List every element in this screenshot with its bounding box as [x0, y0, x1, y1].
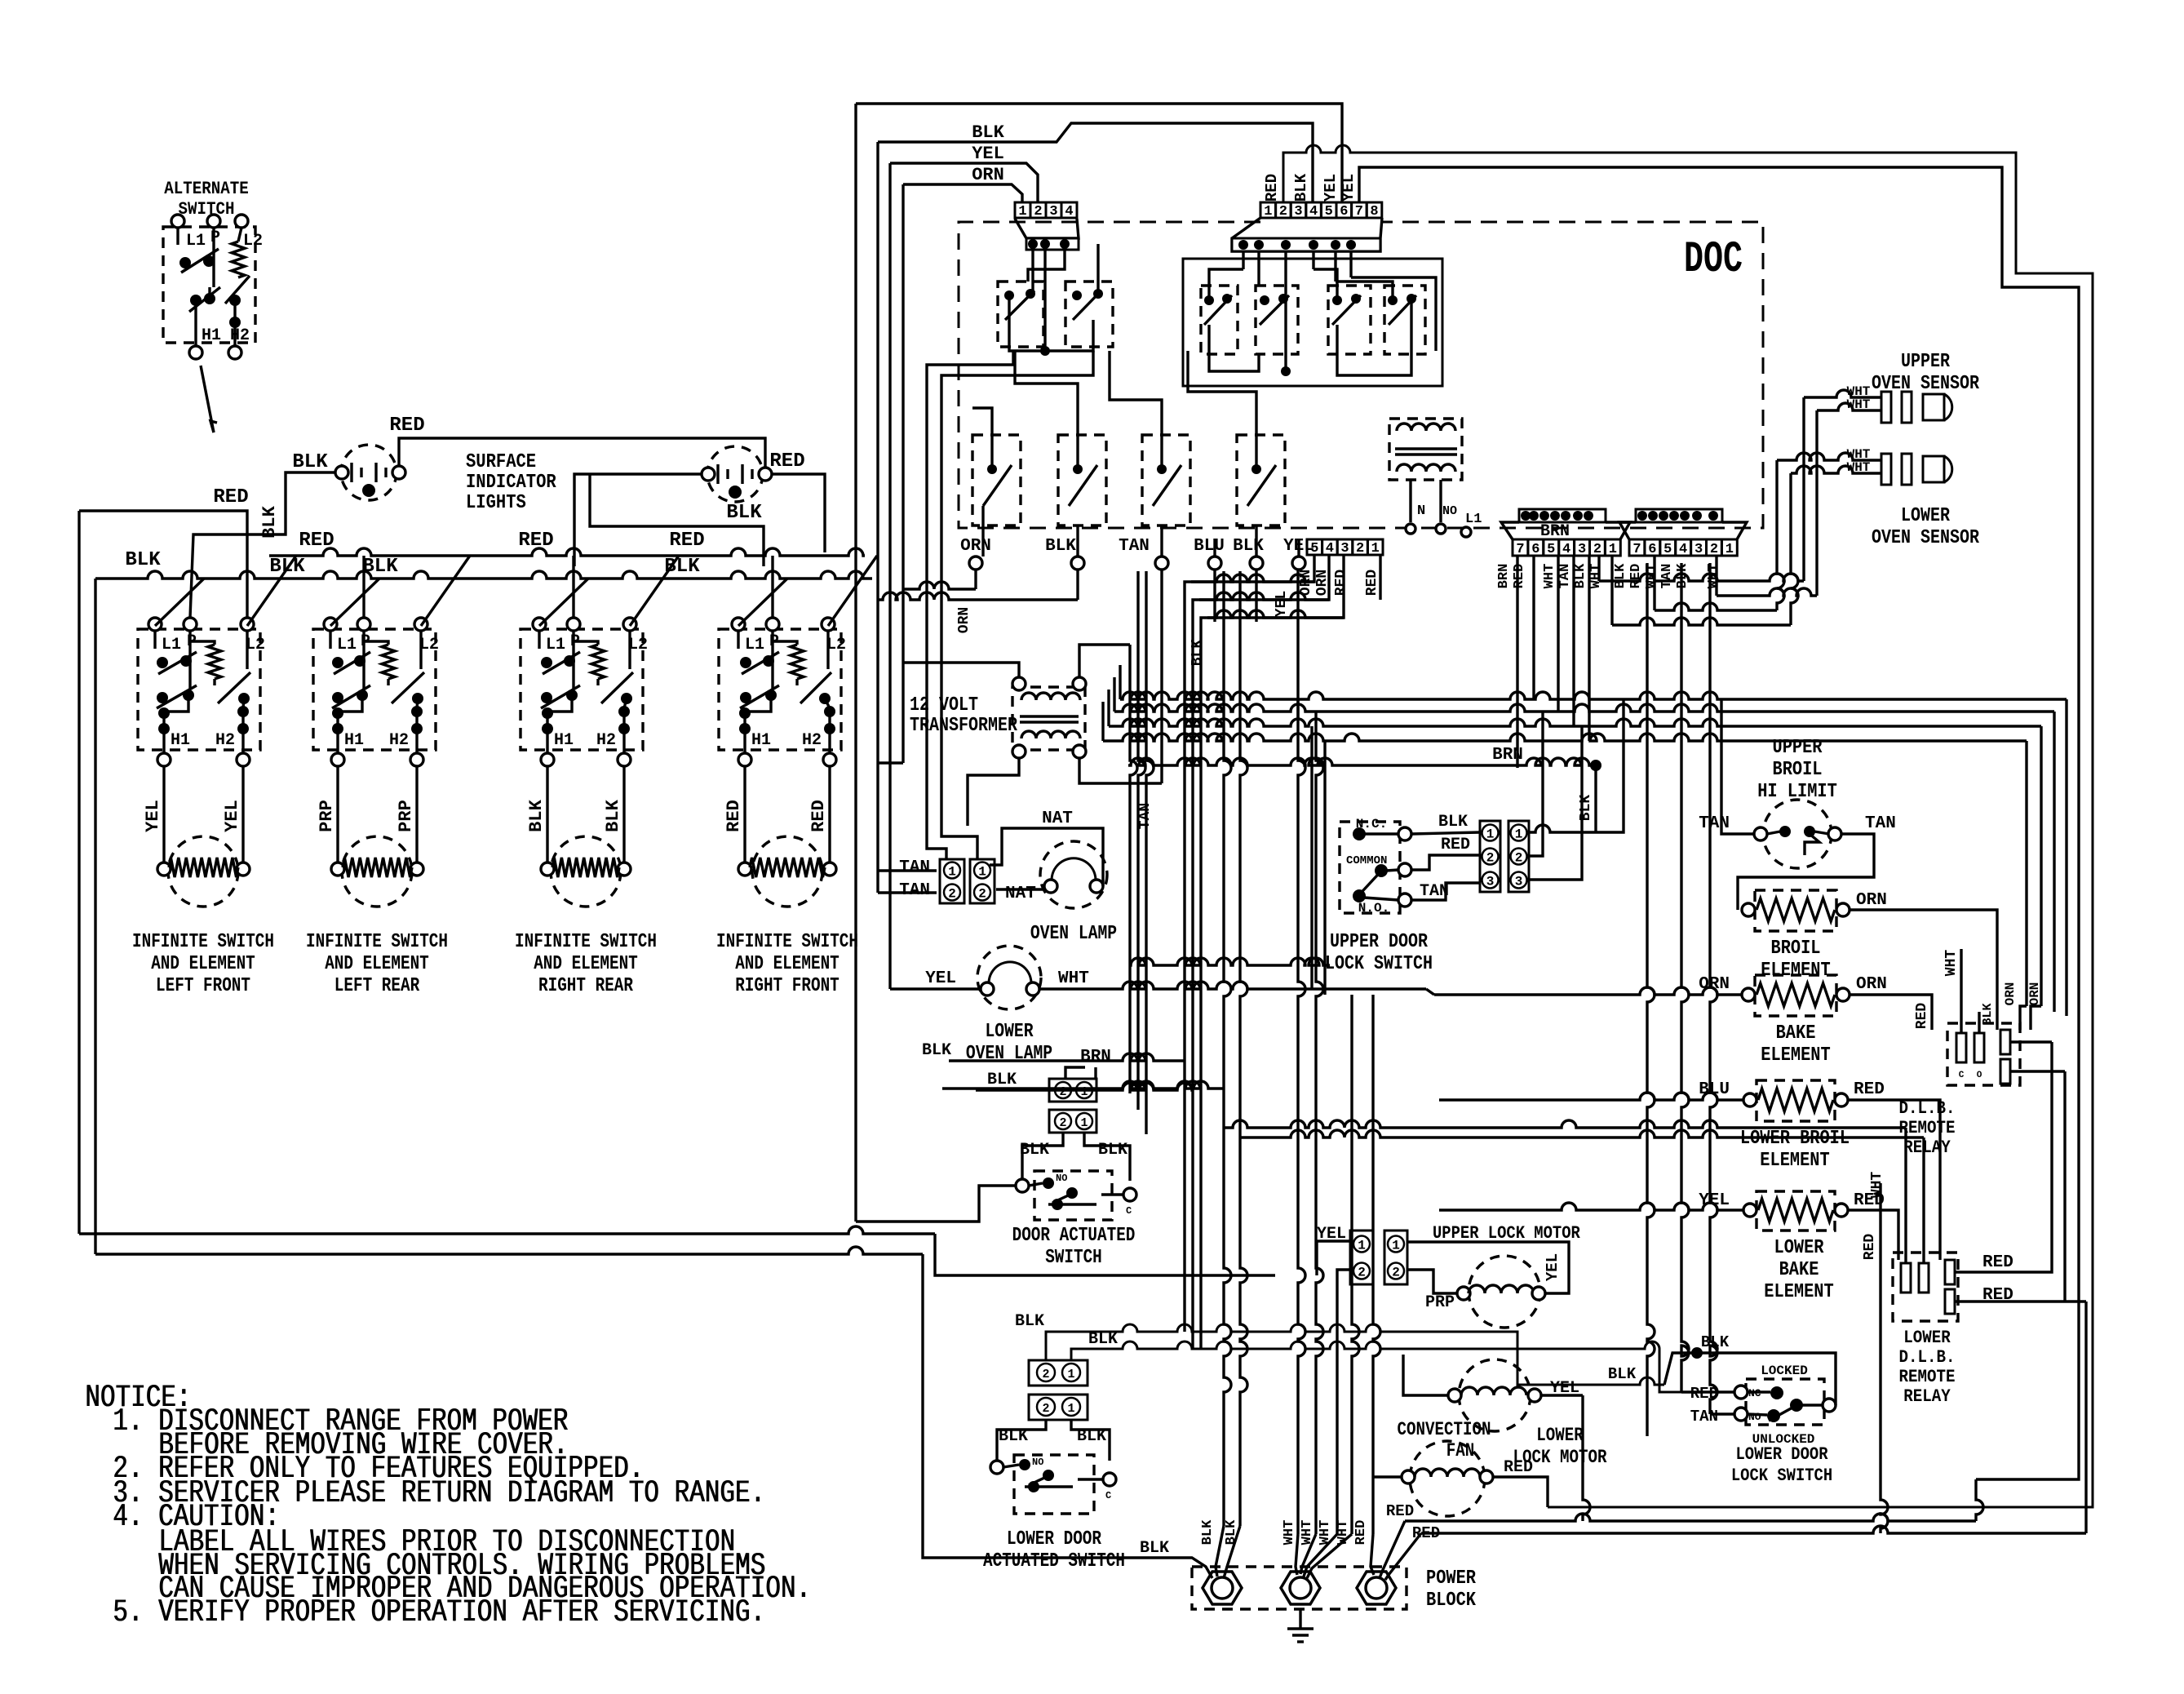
svg-text:ORN: ORN: [956, 607, 972, 633]
connector P3 5-1: [1307, 539, 1383, 557]
lower door lock switch caption: [1731, 1444, 1832, 1486]
connector P5 pin wires: [1647, 563, 1717, 1436]
svg-text:RIGHT REAR: RIGHT REAR: [538, 975, 633, 997]
svg-text:BLK: BLK: [1981, 1003, 1995, 1025]
element wires RED: [724, 766, 830, 865]
svg-text:3: 3: [1515, 875, 1523, 889]
top border wire outer: [856, 104, 1342, 1222]
wires from bus to switch left rear: [330, 556, 470, 626]
svg-text:BLK: BLK: [1578, 795, 1594, 822]
svg-text:TRANSFORMER: TRANSFORMER: [910, 715, 1017, 737]
svg-text:RED: RED: [1364, 570, 1380, 596]
svg-text:LOCKED: LOCKED: [1761, 1364, 1808, 1378]
svg-text:YEL: YEL: [1322, 174, 1340, 202]
svg-text:NO: NO: [1442, 504, 1457, 518]
oven lamp caption: [1030, 923, 1117, 945]
svg-text:RED: RED: [1263, 174, 1281, 202]
svg-text:1: 1: [1067, 1402, 1074, 1416]
svg-text:D.L.B.: D.L.B.: [1899, 1347, 1956, 1368]
upper door lock switch: [1340, 817, 1411, 916]
power block wire fan: [1216, 1526, 1374, 1578]
notice text: [85, 1380, 812, 1630]
svg-text:YEL: YEL: [925, 969, 956, 988]
connector P3 pin wires to bus: [1185, 556, 1380, 1349]
door actuated switch: [1016, 1133, 1136, 1220]
bake element wires: [1434, 987, 1932, 1030]
svg-text:2: 2: [1042, 1368, 1049, 1381]
svg-text:NAT: NAT: [1005, 885, 1036, 903]
upper door lock block output wires: [1529, 699, 1624, 880]
sensor wire runs: [1599, 397, 1817, 625]
wire RED pin2 to right border: [1283, 145, 2093, 1507]
wire BLK left of left light: [190, 451, 335, 618]
svg-text:NO: NO: [1032, 1457, 1043, 1468]
element right rear: [541, 836, 631, 907]
svg-text:TAN: TAN: [899, 881, 930, 900]
svg-text:7: 7: [1355, 204, 1363, 220]
svg-text:PRP: PRP: [396, 800, 416, 832]
connector P4 7-1 left: [1501, 509, 1630, 557]
lower bake element: [1699, 1191, 1885, 1231]
DOC output terminal drop wires: [878, 570, 1298, 829]
wire RED top between indicator lights: [389, 415, 765, 468]
svg-text:RED: RED: [1386, 1502, 1414, 1520]
wires from bus to switch right front: [738, 556, 877, 626]
upper oven sensor: [1847, 384, 1952, 423]
upper door lock connector blocks: [1480, 821, 1529, 892]
bake element: [1699, 975, 1887, 1016]
power block wire labels: [1200, 1519, 1369, 1545]
upper broil hi limit wires: [1721, 699, 1874, 910]
wire RED upper-left to switch 1: [79, 486, 249, 618]
svg-text:LOWER: LOWER: [1903, 1328, 1951, 1348]
svg-text:REMOTE: REMOTE: [1899, 1367, 1956, 1387]
svg-text:BLK: BLK: [125, 549, 161, 571]
svg-text:BLK: BLK: [1613, 563, 1628, 588]
svg-text:TAN: TAN: [1119, 537, 1150, 556]
svg-text:H1: H1: [344, 731, 364, 750]
svg-text:1: 1: [1371, 541, 1380, 557]
wire BLK below right light: [574, 474, 764, 566]
svg-text:BRN: BRN: [1492, 746, 1523, 765]
svg-text:BLK: BLK: [526, 799, 547, 831]
svg-text:RIGHT FRONT: RIGHT FRONT: [735, 975, 839, 997]
lower lock motor: [1403, 1355, 1607, 1521]
svg-text:ORN: ORN: [2027, 982, 2042, 1006]
svg-text:2: 2: [1515, 851, 1523, 866]
lower broil element wires: [1439, 1093, 1940, 1260]
svg-text:RED: RED: [1854, 1080, 1885, 1099]
upper lock motor: [1457, 1256, 1545, 1328]
svg-text:RED: RED: [1504, 1458, 1533, 1477]
lower door lock switch: [1690, 1364, 1836, 1447]
BRN wire to DOC: [1128, 746, 1601, 832]
svg-text:ACTUATED SWITCH: ACTUATED SWITCH: [983, 1550, 1125, 1572]
surface indicator lights caption: [466, 451, 556, 514]
surface indicator light left: [335, 445, 405, 500]
svg-text:BAKE: BAKE: [1779, 1259, 1819, 1281]
svg-text:UPPER DOOR: UPPER DOOR: [1330, 931, 1428, 953]
svg-text:4: 4: [1309, 204, 1318, 220]
alternate switch caption: [164, 179, 249, 220]
svg-text:LOWER DOOR: LOWER DOOR: [1736, 1444, 1829, 1465]
svg-text:BLK: BLK: [1015, 1312, 1044, 1331]
svg-text:BAKE: BAKE: [1776, 1022, 1816, 1044]
upper door lock switch wires: [1411, 813, 1480, 901]
svg-text:BLK: BLK: [1200, 1519, 1216, 1545]
svg-text:BLK: BLK: [1292, 173, 1310, 202]
lower door actuated switch caption: [983, 1528, 1125, 1572]
svg-text:RED: RED: [769, 450, 804, 472]
connector P2 1-8: [1260, 202, 1382, 220]
svg-text:YEL: YEL: [972, 144, 1004, 164]
DOC oven relay switch 4: [1237, 435, 1285, 525]
svg-text:2: 2: [1042, 1402, 1049, 1416]
upper broil hi limit caption: [1757, 737, 1837, 803]
wire YEL pin7 to right border: [1359, 167, 2079, 1479]
svg-text:INFINITE SWITCH: INFINITE SWITCH: [306, 931, 448, 953]
element left rear: [331, 836, 423, 907]
broil element caption: [1761, 938, 1830, 982]
svg-text:RED: RED: [1982, 1253, 2013, 1272]
svg-text:WHT: WHT: [1943, 950, 1960, 977]
svg-text:RED: RED: [1862, 1234, 1878, 1261]
svg-text:6: 6: [1340, 204, 1348, 220]
infinite switch left front: [138, 618, 265, 766]
svg-text:1: 1: [978, 865, 986, 880]
DOC relay frame: [1183, 259, 1442, 386]
upper door lock switch caption: [1325, 931, 1433, 975]
svg-text:H1: H1: [751, 731, 771, 750]
svg-text:1: 1: [1018, 204, 1026, 220]
element right front: [738, 836, 836, 907]
broil element wires: [1850, 910, 1997, 1030]
svg-text:BLU: BLU: [1194, 537, 1225, 556]
svg-text:C: C: [1105, 1490, 1111, 1501]
lower dlb remote relay: [1862, 1172, 1958, 1321]
svg-text:N.O.: N.O.: [1358, 901, 1389, 916]
svg-text:H1: H1: [202, 326, 221, 345]
svg-text:1: 1: [1515, 827, 1523, 842]
svg-text:LOWER: LOWER: [1901, 505, 1950, 527]
svg-text:BLOCK: BLOCK: [1426, 1590, 1477, 1612]
oven lamp: [1040, 809, 1107, 908]
svg-text:NO: NO: [1748, 1411, 1761, 1423]
element wires YEL: [143, 766, 243, 865]
svg-text:12 VOLT: 12 VOLT: [910, 694, 978, 716]
dlb remote relay wires: [1961, 949, 2065, 1071]
svg-text:BLK: BLK: [1573, 563, 1588, 588]
svg-text:TAN: TAN: [1659, 564, 1675, 589]
wire YEL to 4-pin connector: [890, 144, 1038, 989]
lower oven sensor caption: [1872, 505, 1979, 549]
svg-text:RED: RED: [213, 486, 248, 508]
DOC relay K2 contacts: [1065, 244, 1113, 347]
svg-text:INDICATOR: INDICATOR: [466, 472, 556, 494]
svg-text:REMOTE: REMOTE: [1899, 1118, 1956, 1138]
svg-text:ORN: ORN: [972, 165, 1004, 185]
svg-text:BLK: BLK: [603, 799, 623, 831]
svg-text:SWITCH: SWITCH: [179, 199, 235, 220]
svg-text:YEL: YEL: [143, 800, 163, 832]
svg-text:BLK: BLK: [1438, 813, 1468, 831]
DOC relay K4 contacts: [1256, 286, 1298, 354]
broil element: [1742, 890, 1887, 931]
bottom-left long wire to YEL lock motor: [935, 1234, 1275, 1275]
svg-text:1: 1: [1486, 827, 1495, 842]
connector P1 fan and contacts: [1015, 219, 1079, 250]
svg-text:P: P: [210, 228, 220, 247]
svg-text:WHT: WHT: [1869, 1172, 1885, 1199]
wire BLK vertical label left light: [259, 505, 280, 538]
svg-text:C: C: [1126, 1205, 1132, 1217]
transformer wires: [878, 645, 1162, 826]
svg-text:ORN: ORN: [2003, 982, 2018, 1006]
svg-text:WHT: WHT: [1542, 564, 1557, 589]
svg-text:CONVECTION: CONVECTION: [1398, 1419, 1491, 1440]
svg-text:RED: RED: [808, 800, 829, 832]
DOC relay K1 contacts: [998, 244, 1043, 347]
svg-text:BLK: BLK: [987, 1071, 1017, 1089]
svg-text:4: 4: [1679, 542, 1687, 557]
svg-text:1: 1: [1358, 1239, 1366, 1253]
svg-text:ELEMENT: ELEMENT: [1760, 1150, 1829, 1172]
svg-text:1: 1: [1080, 1116, 1088, 1130]
connector P4 pin wires: [1517, 556, 1589, 768]
svg-text:TAN: TAN: [1690, 1408, 1718, 1426]
wires from bus to switch left front: [155, 556, 296, 626]
lower door actuated switch: [990, 1420, 1116, 1514]
svg-text:4: 4: [1562, 542, 1570, 557]
svg-text:BLK: BLK: [1608, 1365, 1637, 1383]
12 volt transformer: [1012, 677, 1086, 758]
svg-text:LOCK SWITCH: LOCK SWITCH: [1731, 1466, 1832, 1486]
svg-text:INFINITE SWITCH: INFINITE SWITCH: [515, 931, 657, 953]
svg-text:UPPER: UPPER: [1901, 351, 1950, 373]
middle vertical bus wires: [1130, 571, 1380, 1534]
BRN wire to door switch connector: [1065, 1048, 1111, 1079]
svg-text:RED: RED: [1690, 1385, 1718, 1403]
svg-text:8: 8: [1370, 204, 1378, 220]
svg-text:ORN: ORN: [1856, 891, 1887, 910]
svg-text:3: 3: [1486, 875, 1495, 889]
wire RED bus: [269, 530, 865, 556]
svg-text:AND ELEMENT: AND ELEMENT: [534, 953, 638, 975]
svg-text:L1: L1: [546, 636, 565, 654]
svg-text:7: 7: [1516, 542, 1524, 557]
svg-text:1: 1: [1392, 1239, 1400, 1253]
svg-text:AND ELEMENT: AND ELEMENT: [735, 953, 839, 975]
wires RED BLK YEL YEL above connector P2: [1263, 173, 1358, 202]
svg-text:SURFACE: SURFACE: [466, 451, 536, 473]
dlb remote relay: [1914, 950, 2042, 1085]
DOC box: [959, 222, 1763, 528]
svg-text:DOC: DOC: [1684, 235, 1743, 285]
svg-text:H2: H2: [389, 731, 409, 750]
door actuated switch connector 2: [1049, 1110, 1096, 1133]
svg-text:RED: RED: [389, 415, 424, 437]
connector P2 fan and contacts: [1232, 218, 1382, 251]
svg-text:1: 1: [1609, 542, 1617, 557]
wire BLK main bus: [95, 549, 872, 579]
svg-text:5: 5: [1663, 542, 1672, 557]
DOC relay K6 contacts: [1384, 286, 1425, 354]
caption infinite switch right rear: [515, 931, 657, 997]
svg-text:2: 2: [1710, 542, 1718, 557]
svg-text:1: 1: [1264, 204, 1272, 220]
svg-text:2: 2: [1486, 851, 1495, 866]
lower oven lamp caption: [966, 1021, 1052, 1065]
svg-text:INFINITE SWITCH: INFINITE SWITCH: [132, 931, 274, 953]
dlb remote relay caption: [1899, 1098, 1956, 1158]
DOC relay K5 contacts: [1328, 286, 1371, 354]
oven lamp wires: [878, 763, 1103, 893]
svg-text:ELEMENT: ELEMENT: [1761, 1044, 1830, 1067]
svg-text:BLK: BLK: [1701, 1333, 1730, 1351]
svg-text:RED: RED: [724, 800, 744, 832]
surface indicator light right: [702, 446, 772, 502]
svg-text:OVEN SENSOR: OVEN SENSOR: [1872, 527, 1979, 549]
oven lamp connector blocks: [899, 858, 1036, 903]
svg-text:RELAY: RELAY: [1903, 1137, 1951, 1158]
leader line from alternate switch: [201, 366, 217, 432]
svg-text:YEL: YEL: [1544, 1253, 1562, 1281]
power block: [1192, 1567, 1477, 1612]
lower dlb relay wires: [1955, 1042, 2086, 1305]
rows into lower dlb relay: [1224, 1120, 1924, 1263]
svg-text:LOWER: LOWER: [1536, 1425, 1584, 1446]
lower dlb remote relay caption: [1899, 1328, 1956, 1407]
svg-text:WHT: WHT: [1282, 1520, 1297, 1545]
svg-text:5. VERIFY PROPER OPERATION AFT: 5. VERIFY PROPER OPERATION AFTER SERVICI…: [113, 1594, 766, 1630]
svg-text:AND ELEMENT: AND ELEMENT: [325, 953, 429, 975]
DOC relay K1-K2 wires: [1009, 244, 1093, 356]
svg-text:BLK: BLK: [292, 451, 328, 473]
svg-text:2: 2: [1356, 541, 1364, 557]
lower oven sensor: [1847, 447, 1952, 485]
wire RED from right light to control: [769, 450, 825, 552]
svg-text:2: 2: [978, 887, 986, 902]
svg-text:3: 3: [1578, 542, 1586, 557]
upper lock motor circuit: [1317, 1223, 1580, 1534]
svg-text:WHT: WHT: [1588, 564, 1604, 589]
svg-text:BLK: BLK: [1233, 537, 1264, 556]
svg-text:BLK: BLK: [922, 1041, 951, 1060]
svg-text:4: 4: [1065, 204, 1073, 220]
lower door lock switch wires: [1608, 1333, 1836, 1414]
svg-text:PRP: PRP: [317, 800, 337, 832]
svg-text:UPPER: UPPER: [1773, 737, 1823, 759]
connector P5 7-1 right: [1619, 509, 1747, 557]
svg-text:YEL: YEL: [1274, 591, 1290, 617]
lower broil element caption: [1740, 1128, 1850, 1172]
svg-text:H1: H1: [554, 731, 574, 750]
caption infinite switch left front: [132, 931, 274, 997]
connector P5 wire labels: [1613, 563, 1721, 588]
svg-text:RED: RED: [1333, 570, 1349, 596]
DOC oven relay switch 3: [1142, 435, 1190, 525]
svg-text:2: 2: [1392, 1266, 1400, 1280]
svg-text:RED: RED: [669, 530, 704, 552]
svg-text:LEFT REAR: LEFT REAR: [334, 975, 420, 997]
svg-text:INFINITE SWITCH: INFINITE SWITCH: [716, 931, 858, 953]
svg-text:ALTERNATE: ALTERNATE: [164, 179, 249, 199]
svg-text:BLK: BLK: [1045, 537, 1076, 556]
svg-text:SWITCH: SWITCH: [1045, 1247, 1102, 1269]
svg-text:3: 3: [1340, 541, 1349, 557]
svg-text:H1: H1: [171, 731, 190, 750]
bottom right return wires: [1380, 1183, 2086, 1580]
lower broil element: [1699, 1080, 1885, 1121]
svg-text:RED: RED: [1353, 1520, 1369, 1545]
lower door switch connectors: [922, 1041, 1193, 1420]
svg-text:ORN: ORN: [1856, 975, 1887, 994]
svg-text:BROIL: BROIL: [1773, 759, 1823, 781]
svg-text:LOWER: LOWER: [1774, 1237, 1825, 1259]
svg-text:BLK: BLK: [972, 122, 1004, 143]
svg-text:D.L.B.: D.L.B.: [1899, 1098, 1956, 1119]
DOC relay K3 contacts: [1201, 286, 1238, 354]
caption infinite switch left rear: [306, 931, 448, 997]
horizontal distribution wires: [1103, 665, 2067, 1016]
svg-text:YEL: YEL: [222, 800, 242, 832]
wire ORN to 4-pin connector: [903, 165, 1022, 663]
svg-text:TAN: TAN: [1557, 564, 1573, 589]
connector P4 wire labels: [1496, 563, 1604, 588]
left border vertical wires: [79, 511, 935, 1254]
DOC output terminal labels: [960, 537, 1314, 570]
element left front: [157, 836, 250, 907]
svg-text:BRN: BRN: [1080, 1048, 1111, 1067]
infinite switch right rear: [521, 618, 648, 766]
upper oven sensor wires: [1804, 390, 1881, 410]
svg-text:6: 6: [1648, 542, 1656, 557]
svg-text:1: 1: [1067, 1368, 1074, 1381]
lower oven lamp: [925, 946, 1089, 1009]
bottom BLK wire into power block: [923, 1254, 1212, 1578]
bake element caption: [1761, 1022, 1830, 1067]
svg-text:LIGHTS: LIGHTS: [466, 492, 526, 514]
svg-text:YEL: YEL: [1340, 174, 1358, 202]
svg-text:L1: L1: [162, 636, 181, 654]
svg-text:NAT: NAT: [1042, 809, 1073, 828]
DOC oven relay switch 2: [1058, 435, 1106, 525]
DOC oven relay switch 1: [972, 435, 1021, 525]
BLK rows to lower door switch: [1015, 1312, 1681, 1392]
svg-text:BLK: BLK: [1020, 1141, 1049, 1160]
svg-text:2: 2: [1358, 1266, 1366, 1280]
element wires BLK: [526, 766, 624, 865]
svg-text:RED: RED: [1914, 1003, 1930, 1030]
svg-text:H2: H2: [596, 731, 616, 750]
svg-text:TAN: TAN: [899, 858, 930, 877]
svg-text:3: 3: [1694, 542, 1703, 557]
svg-text:2: 2: [1279, 204, 1287, 220]
svg-text:TAN: TAN: [1699, 814, 1730, 833]
svg-text:BRN: BRN: [1496, 564, 1512, 589]
svg-text:LOWER: LOWER: [986, 1021, 1034, 1043]
infinite switch right front: [719, 618, 846, 766]
svg-text:AND ELEMENT: AND ELEMENT: [151, 953, 255, 975]
svg-text:3: 3: [1294, 204, 1302, 220]
svg-text:H2: H2: [802, 731, 822, 750]
svg-text:L1: L1: [1465, 512, 1482, 527]
DOC oven relay wiring top: [972, 351, 1299, 557]
svg-text:LEFT FRONT: LEFT FRONT: [156, 975, 250, 997]
svg-text:PRP: PRP: [1425, 1293, 1455, 1312]
svg-text:5: 5: [1310, 541, 1318, 557]
svg-text:RED: RED: [1441, 836, 1470, 854]
